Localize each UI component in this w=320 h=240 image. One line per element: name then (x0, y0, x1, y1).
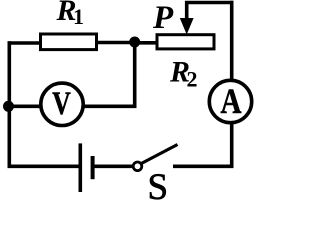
rheostat R2 body (157, 35, 214, 49)
wire: left vertical rail (8, 41, 12, 168)
svg-text:A: A (221, 81, 242, 121)
node: junction dot left (voltmeter tap on left rail) (3, 101, 14, 112)
wire: junction to R2 (135, 41, 158, 45)
wire: right vertical rail down to ammeter (230, 1, 234, 81)
wire: top-left horizontal from left rail to R1 (8, 41, 42, 45)
voltmeter V: circle (41, 83, 83, 125)
wire: R1 right to junction node (97, 41, 136, 45)
wire: top horizontal from wiper to right rail (185, 1, 234, 5)
switch S: pivot circle (133, 162, 142, 171)
wiper arrow of R2 (slider P): arrowhead (180, 18, 194, 35)
wire: battery to switch pivot (93, 165, 134, 169)
wire: junction down vertical to voltmeter branch (133, 42, 137, 108)
ammeter A: circle (209, 80, 251, 122)
svg-text:V: V (52, 86, 71, 122)
switch S: lever blade (141, 145, 177, 164)
svg-text:P: P (152, 0, 174, 36)
svg-text:R1: R1 (56, 0, 85, 29)
wire: bottom-left horizontal to battery (8, 165, 80, 169)
wiper arrow of R2 (slider P): stem (185, 1, 189, 22)
svg-text:S: S (148, 167, 169, 200)
wire: voltmeter left to left rail (8, 105, 42, 109)
wire: bottom-right horizontal from switch to right rail (173, 165, 234, 169)
wire: ammeter bottom down to bottom-right corner (230, 123, 234, 169)
battery: short plate (negative) (91, 156, 95, 179)
wire: horizontal from branch corner to voltmeter right (84, 105, 137, 109)
node: junction dot top (R1/R2/voltmeter tap) (129, 37, 140, 48)
resistor R1 (41, 34, 97, 50)
battery: long plate (positive) (79, 143, 83, 192)
